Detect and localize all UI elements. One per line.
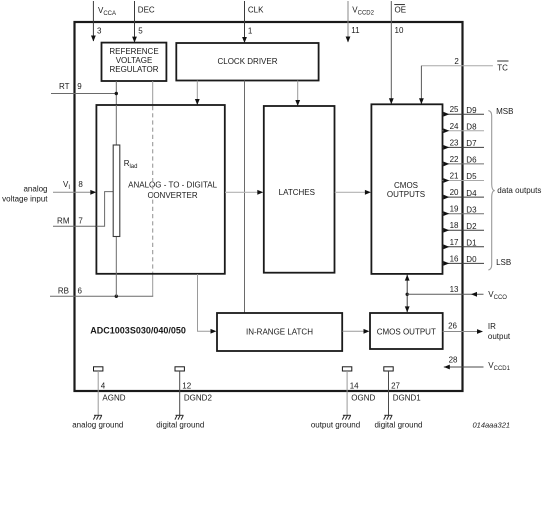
svg-text:20: 20 [450,188,459,197]
svg-text:digital ground: digital ground [156,420,204,429]
wire: ladder bottom to RB [115,237,117,297]
label: output ground [311,420,360,429]
pin 28 VCCD1 wire [444,355,511,372]
wire: clock driver to IN-RANGE LATCH [244,81,246,313]
pin 2 TC wire (to CMOS OUTPUTS) [419,57,509,104]
label: analog voltage input [2,185,48,204]
svg-text:LSB: LSB [496,258,511,267]
pin 10 OE wire (to CMOS OUTPUTS) [389,1,406,104]
wire: IN-RANGE LATCH to CMOS OUTPUT [343,329,370,334]
svg-text:MSB: MSB [496,107,513,116]
svg-text:22: 22 [450,155,459,164]
pin 6 RB wire [50,286,153,298]
svg-text:7: 7 [78,217,83,226]
pin 4 AGND pad [94,367,126,416]
svg-text:17: 17 [450,238,459,247]
svg-text:OGND: OGND [351,394,375,403]
block: ANALOG-TO-DIGITAL CONVERTER [96,105,224,274]
svg-text:18: 18 [450,221,459,230]
label MSB [496,107,513,116]
wire: LATCHES to CMOS OUTPUTS [335,190,371,195]
svg-text:VOLTAGE: VOLTAGE [116,56,153,65]
svg-text:data outputs: data outputs [497,186,541,195]
wire: clock driver to ADC [195,81,200,106]
svg-text:DEC: DEC [138,5,155,14]
svg-text:014aaa321: 014aaa321 [473,420,511,429]
label LSB [496,258,511,267]
label: figure id 014aaa321 [473,420,511,429]
chip boundary box [75,22,463,391]
pin 19 data output D3 wire [443,205,485,216]
svg-text:D1: D1 [466,239,477,248]
svg-text:TC: TC [497,64,508,73]
pin 23 data output D7 wire [443,138,485,149]
block: IN-RANGE LATCH [217,313,342,351]
svg-text:DGND2: DGND2 [184,394,213,403]
svg-text:CMOS: CMOS [394,181,418,190]
svg-text:23: 23 [450,138,459,147]
svg-text:LATCHES: LATCHES [279,188,315,197]
svg-text:voltage input: voltage input [2,194,48,203]
svg-text:CONVERTER: CONVERTER [148,191,198,200]
label: ADC1003S030/040/050 [90,325,186,335]
label: analog ground [72,420,123,429]
wire: dashed reference line inside ADC [152,106,154,273]
svg-text:28: 28 [449,355,458,364]
pin 8 VI analog input wire [53,180,96,195]
label: digital ground (DGND1) [374,420,422,429]
svg-text:3: 3 [97,27,102,36]
resistor ladder Rlad [113,145,137,237]
pin 3 VCCA supply wire [91,1,116,42]
block: REFERENCE VOLTAGE REGULATOR [102,43,167,81]
svg-text:AGND: AGND [102,394,125,403]
svg-text:CMOS OUTPUT: CMOS OUTPUT [377,327,436,336]
block: CLOCK DRIVER [176,43,318,81]
svg-text:IR: IR [488,322,496,331]
svg-text:analog: analog [23,185,47,194]
pin 5 DEC wire [132,1,155,43]
svg-text:24: 24 [450,122,459,131]
pin 9 RT wire [51,82,118,95]
data outputs brace [488,111,495,270]
svg-text:21: 21 [450,172,459,181]
svg-text:DGND1: DGND1 [393,394,422,403]
label data outputs [497,186,541,195]
svg-text:D6: D6 [466,156,477,165]
svg-text:D0: D0 [466,255,477,264]
svg-text:CLOCK DRIVER: CLOCK DRIVER [217,57,277,66]
svg-text:6: 6 [78,286,83,295]
wire: CMOS OUTPUTS to CMOS OUTPUT (VCCO node) [405,275,410,313]
svg-text:D5: D5 [466,172,477,181]
pin 27 DGND1 pad [384,367,421,416]
svg-text:REGULATOR: REGULATOR [109,65,158,74]
svg-text:25: 25 [450,105,459,114]
ground symbol for OGND [342,415,351,419]
ground symbol for DGND1 [384,415,393,419]
wire: dashed reference line from regulator to RB [152,81,154,296]
pin 17 data output D1 wire [443,238,485,249]
svg-text:26: 26 [448,321,457,330]
svg-text:14: 14 [350,381,359,390]
svg-text:OE: OE [395,6,407,15]
svg-text:D3: D3 [466,205,477,214]
pin 18 data output D2 wire [443,221,485,232]
wire: regulator output to RT node and ladder top [115,81,117,145]
svg-text:output: output [488,332,511,341]
svg-text:D8: D8 [466,123,477,132]
svg-text:D9: D9 [466,106,477,115]
pin 24 data output D8 wire [443,122,485,133]
wire: ladder feed through ADC top [115,105,117,145]
svg-text:D7: D7 [466,139,477,148]
pin 1 CLK wire [242,1,264,43]
svg-text:RB: RB [58,286,69,295]
pin 22 data output D6 wire [443,155,485,166]
svg-text:13: 13 [450,285,459,294]
block: CMOS OUTPUT [370,313,443,349]
ground symbol for DGND2 [175,415,184,419]
pin 13 VCCO wire [407,285,507,301]
svg-text:digital ground: digital ground [374,420,422,429]
wire: clock driver to LATCHES [295,81,300,107]
block: LATCHES [264,106,335,273]
pin 14 OGND pad [342,367,375,416]
pin 25 data output D9 wire [443,105,485,116]
svg-text:27: 27 [391,381,400,390]
svg-text:IN-RANGE LATCH: IN-RANGE LATCH [246,327,313,336]
svg-text:D2: D2 [466,222,477,231]
svg-text:OUTPUTS: OUTPUTS [387,190,425,199]
ground symbol for AGND [93,415,102,419]
pin 21 data output D5 wire [443,172,485,183]
svg-text:9: 9 [77,82,82,91]
svg-text:CLK: CLK [248,5,264,14]
svg-text:1: 1 [248,27,253,36]
svg-text:output ground: output ground [311,420,360,429]
svg-text:10: 10 [395,26,404,35]
wire: ADC to IN-RANGE LATCH [198,274,217,334]
pin 16 data output D0 wire [443,254,485,265]
svg-text:8: 8 [78,180,83,189]
pin 26 IR output wire [443,321,511,341]
svg-text:D4: D4 [466,189,477,198]
pin 20 data output D4 wire [443,188,485,199]
svg-text:RM: RM [57,217,70,226]
svg-text:2: 2 [454,57,459,66]
svg-text:RT: RT [59,82,70,91]
wire: ADC to LATCHES [225,190,263,195]
svg-text:19: 19 [450,205,459,214]
pin 11 VCCD2 supply wire [346,1,375,43]
label: digital ground (DGND2) [156,420,204,429]
svg-text:analog ground: analog ground [72,420,123,429]
block: CMOS OUTPUTS [371,104,442,274]
pin 7 RM wire [53,192,113,227]
svg-text:5: 5 [138,27,143,36]
svg-text:ADC1003S030/040/050: ADC1003S030/040/050 [90,325,186,335]
svg-text:12: 12 [182,381,191,390]
svg-text:11: 11 [351,26,360,35]
wire: RM tap to ladder midpoint [96,192,113,227]
svg-text:4: 4 [101,381,106,390]
svg-text:ANALOG - TO - DIGITAL: ANALOG - TO - DIGITAL [128,181,217,190]
svg-text:16: 16 [450,254,459,263]
svg-text:REFERENCE: REFERENCE [109,47,158,56]
pin 12 DGND2 pad [175,367,212,416]
